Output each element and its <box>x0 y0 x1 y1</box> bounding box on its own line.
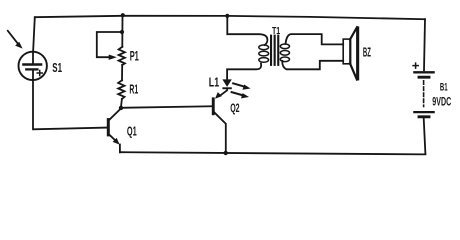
svg-text:S1: S1 <box>52 60 62 75</box>
svg-text:Q1: Q1 <box>127 124 137 138</box>
svg-text:BZ: BZ <box>363 45 371 60</box>
svg-text:L1: L1 <box>209 75 219 90</box>
svg-text:B1: B1 <box>440 82 448 94</box>
svg-text:T1: T1 <box>272 26 281 37</box>
svg-text:Q2: Q2 <box>230 101 240 115</box>
svg-text:9VDC: 9VDC <box>432 94 451 108</box>
svg-text:P1: P1 <box>130 49 139 64</box>
svg-text:R1: R1 <box>129 81 138 96</box>
